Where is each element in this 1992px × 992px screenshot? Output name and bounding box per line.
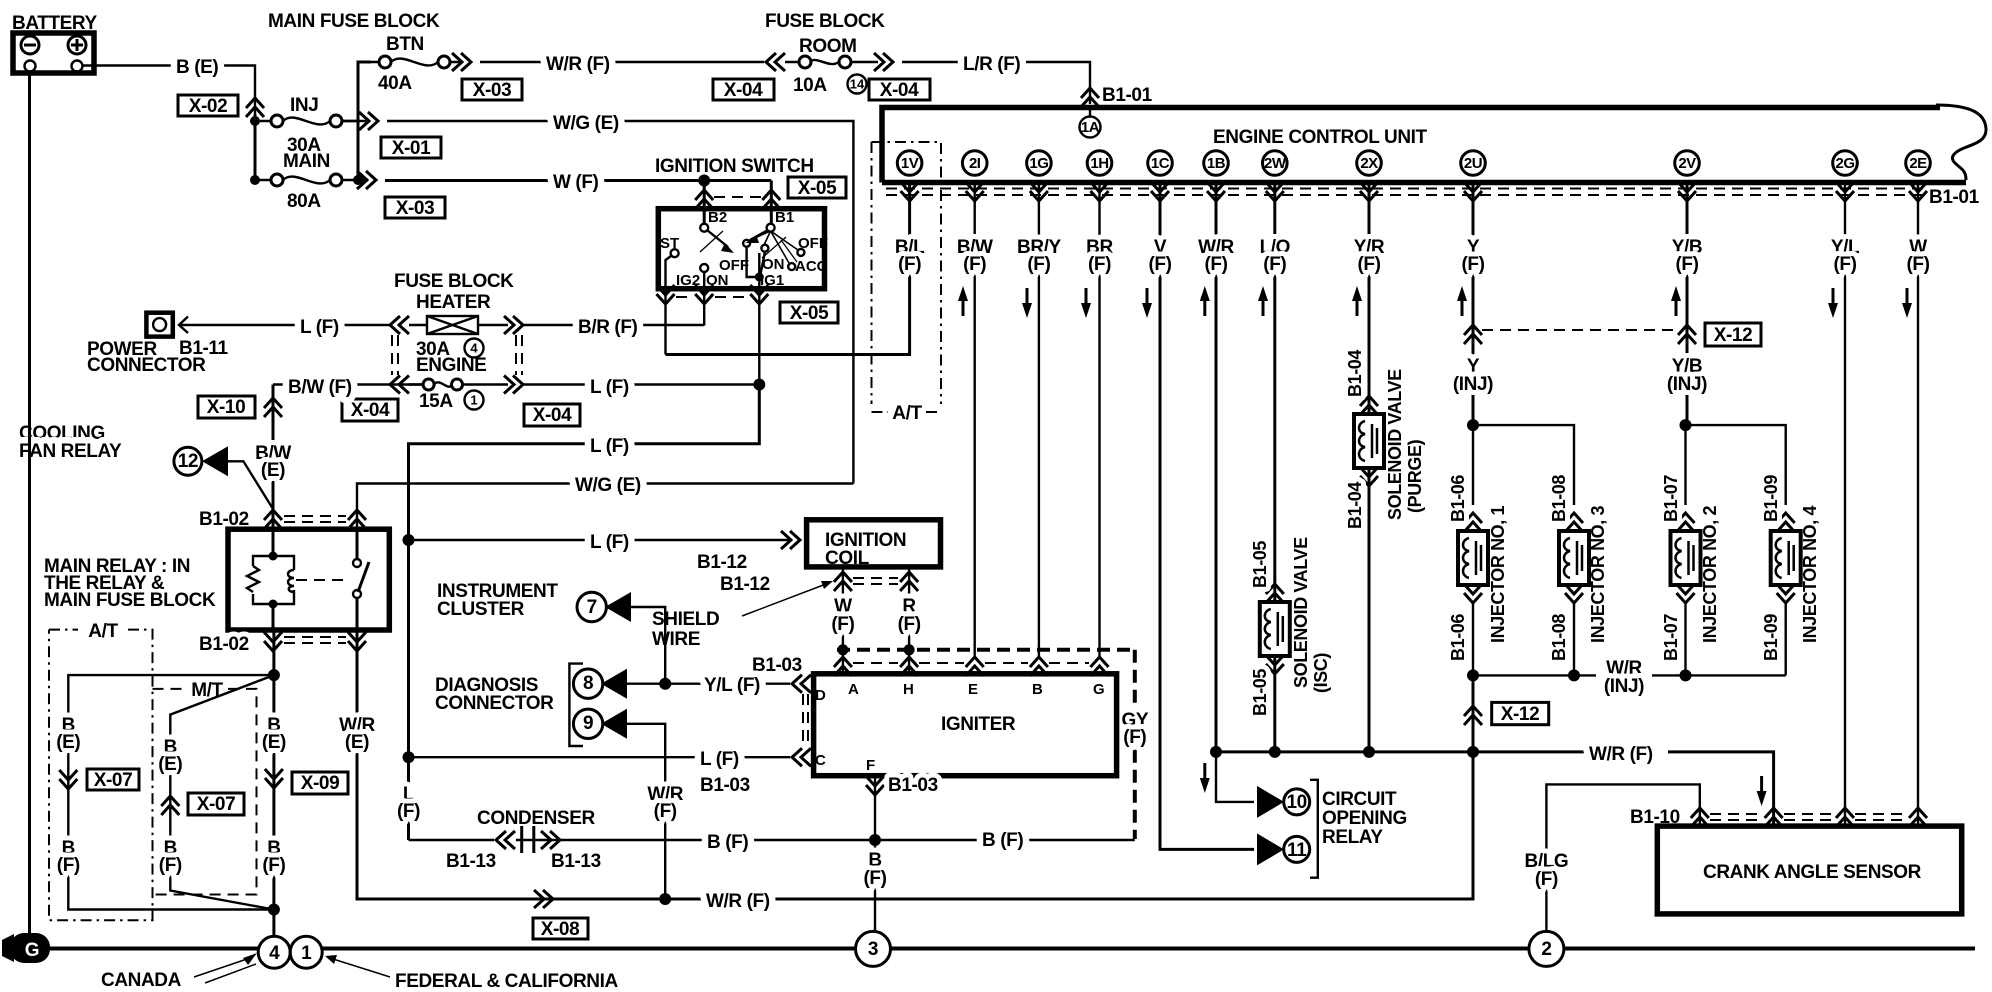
main relay coil: [247, 529, 350, 630]
svg-text:11: 11: [1287, 840, 1307, 861]
svg-text:(F): (F): [1535, 869, 1558, 890]
svg-text:X-08: X-08: [541, 919, 580, 940]
svg-text:B1-04: B1-04: [1345, 350, 1365, 397]
wire battery minus to ground: [28, 72, 31, 940]
svg-text:L (F): L (F): [700, 749, 739, 770]
pin 1V: [897, 151, 922, 201]
svg-text:X-01: X-01: [392, 138, 431, 159]
svg-text:B1-03: B1-03: [888, 775, 938, 796]
connector X-08 chevron: [534, 890, 553, 908]
power connector labels: [87, 338, 229, 376]
connector B1-01 chevron: [1081, 88, 1099, 107]
svg-text:X-07: X-07: [94, 770, 133, 791]
svg-text:1H: 1H: [1090, 155, 1108, 172]
main relay switch: [353, 529, 369, 630]
wire B1 drop: [770, 181, 773, 225]
pin 2G: [1833, 151, 1858, 201]
svg-text:10: 10: [1287, 792, 1307, 813]
wire injector 1-3 top link: [1473, 425, 1574, 505]
svg-text:B1-06: B1-06: [1448, 614, 1468, 661]
injector no 4: [1771, 513, 1801, 675]
connector X-09 box: [292, 772, 348, 794]
connector X-02 chevron: [246, 98, 264, 117]
svg-text:(F): (F): [1461, 254, 1484, 275]
svg-text:X-09: X-09: [301, 773, 340, 794]
svg-text:X-05: X-05: [798, 178, 837, 199]
svg-text:D: D: [815, 687, 826, 704]
shield wire dashed: [837, 644, 1135, 839]
svg-text:(F): (F): [1088, 254, 1111, 275]
svg-text:B1-11: B1-11: [179, 338, 229, 359]
ECU engine control unit outline: [882, 108, 1940, 183]
wire ROOM out: [851, 61, 878, 63]
connector B1-02 chevrons bottom: [264, 632, 366, 651]
wire B/W (F) down to relay coil: [272, 385, 275, 530]
svg-text:1V: 1V: [901, 155, 919, 172]
svg-text:(F): (F): [1357, 254, 1380, 275]
junction inj2 bottom: [1680, 669, 1692, 681]
svg-text:B1-03: B1-03: [700, 775, 750, 796]
fuse HEATER 30A: [409, 316, 508, 360]
svg-text:(F): (F): [1123, 727, 1146, 748]
connector X-07 chevron at: [59, 770, 77, 789]
node 2: [1529, 931, 1564, 966]
svg-text:(PURGE): (PURGE): [1405, 439, 1425, 513]
svg-text:2E: 2E: [1909, 155, 1927, 172]
pin 2E: [1906, 151, 1931, 201]
wires coil pins into igniter: [843, 650, 909, 674]
power connector pin arrow: [179, 317, 188, 334]
svg-text:4: 4: [269, 943, 280, 964]
wire 2W to solenoid ISC: [1273, 182, 1276, 752]
pin 2U: [1461, 151, 1486, 201]
cooling fan relay labels: [19, 423, 122, 462]
svg-text:G: G: [1093, 681, 1105, 698]
connector X-04 box right: [869, 79, 930, 101]
wire 1V B/L: [666, 182, 910, 355]
svg-text:A: A: [848, 681, 859, 698]
connector X-01: [381, 137, 441, 159]
wire W/R (F): [480, 61, 764, 63]
junction: [250, 116, 260, 126]
wire 1H to igniter G: [1098, 182, 1100, 656]
node B/W (E): [255, 443, 291, 481]
node GY (F): [1121, 710, 1148, 748]
ECU right brace: [1936, 105, 1986, 180]
wire A/T branch: [68, 675, 274, 909]
wire 2I to igniter E: [974, 182, 976, 656]
wire injector 2-4 top link: [1686, 425, 1786, 505]
wire L (F) to igniter C: [409, 756, 791, 758]
svg-text:RELAY: RELAY: [1322, 827, 1383, 848]
node R (F) coil: [898, 596, 921, 635]
svg-text:SHIELD: SHIELD: [652, 609, 719, 630]
svg-text:(F): (F): [863, 868, 886, 889]
junction PURGE: [1363, 746, 1375, 758]
svg-text:(F): (F): [898, 254, 921, 275]
connector X-04 chevrons left pair: [390, 316, 409, 394]
wire relay coil down to circle 4: [272, 630, 275, 936]
svg-text:SOLENOID VALVE: SOLENOID VALVE: [1291, 537, 1311, 688]
wire L net riser junctions: [403, 534, 415, 763]
wire 2X to solenoid PURGE: [1368, 182, 1371, 752]
instrument cluster label: [437, 581, 558, 620]
svg-text:W (F): W (F): [553, 172, 599, 193]
connector X-10 chevron: [264, 398, 282, 417]
diagnosis pin 9: [573, 709, 665, 899]
connector X-12 chevron 2U: [1464, 325, 1482, 344]
connector B1-13 chevron right: [541, 831, 560, 849]
junction inj1 bottom: [1467, 669, 1479, 681]
power connector symbol B1-11: [146, 313, 172, 337]
svg-text:X-04: X-04: [880, 80, 919, 101]
wire W (F) to ignition switch: [385, 179, 771, 182]
switch pins out chevrons: [657, 285, 769, 385]
connector X-05 box top: [788, 177, 846, 199]
node Y (INJ): [1453, 356, 1493, 395]
node W (F): [1902, 237, 1930, 318]
junction ISC: [1269, 746, 1281, 758]
svg-text:B1-08: B1-08: [1549, 614, 1569, 661]
svg-text:1: 1: [301, 943, 312, 964]
wire 2V to injectors: [1686, 182, 1689, 425]
connector X-12 box: [1705, 323, 1761, 346]
injector no 2: [1671, 425, 1701, 675]
svg-text:E: E: [968, 681, 978, 698]
svg-text:(F): (F): [397, 801, 420, 822]
node B (E) at: [56, 715, 80, 753]
wire L (F) to ignition coil: [409, 539, 791, 541]
svg-text:BTN: BTN: [386, 34, 424, 55]
A/T dash-dot box: [49, 621, 153, 920]
svg-text:1G: 1G: [1029, 155, 1048, 172]
svg-text:B1-12: B1-12: [697, 552, 747, 573]
svg-text:3: 3: [868, 939, 878, 960]
wire BTN riser: [358, 62, 371, 180]
pin 2I: [962, 151, 987, 201]
node B (F) mt: [159, 838, 182, 876]
cluster pin 7: [577, 592, 665, 684]
junction injector 2 top: [1680, 419, 1692, 431]
svg-text:FUSE BLOCK: FUSE BLOCK: [394, 271, 514, 292]
junction 9 wire: [659, 893, 671, 905]
switch B1 star contacts: [743, 230, 828, 289]
svg-text:L/R (F): L/R (F): [963, 54, 1020, 75]
svg-text:B1-13: B1-13: [446, 851, 496, 872]
svg-text:14: 14: [850, 77, 865, 92]
svg-text:C: C: [815, 752, 826, 769]
svg-text:B1-03: B1-03: [752, 655, 802, 676]
wire B/R (F) to IG2: [523, 324, 704, 326]
A/T dash-dot box at pin 1V: [872, 142, 942, 424]
svg-text:(F): (F): [1204, 254, 1227, 275]
pin B1: [767, 209, 795, 232]
svg-text:(F): (F): [1148, 254, 1171, 275]
svg-text:B1-09: B1-09: [1761, 475, 1781, 522]
svg-text:ENGINE: ENGINE: [416, 355, 486, 376]
svg-text:B1-08: B1-08: [1549, 475, 1569, 522]
node Y/R (F): [1352, 237, 1385, 316]
svg-text:B1-02: B1-02: [199, 634, 249, 655]
svg-text:ENGINE CONTROL UNIT: ENGINE CONTROL UNIT: [1213, 127, 1428, 148]
svg-text:1C: 1C: [1151, 155, 1170, 172]
connector B1-03 chevron C: [792, 748, 811, 766]
svg-text:W/G (E): W/G (E): [553, 113, 619, 134]
svg-text:(F): (F): [262, 855, 285, 876]
pin 1A: [1080, 107, 1101, 138]
wire 2G to crank sensor: [1844, 182, 1846, 826]
connector X-02: [178, 95, 238, 117]
svg-text:IGNITER: IGNITER: [941, 714, 1016, 735]
svg-text:2V: 2V: [1678, 155, 1696, 172]
pin B2: [700, 209, 727, 232]
connector X-04 box left: [713, 79, 774, 101]
ignition coil box: [807, 520, 941, 569]
svg-text:2X: 2X: [1360, 155, 1378, 172]
wire 1G to igniter B: [1038, 182, 1040, 656]
svg-text:W/R (F): W/R (F): [1589, 744, 1653, 765]
node V (F): [1142, 237, 1172, 318]
svg-text:WIRE: WIRE: [652, 629, 700, 650]
connector B1-03 chevron D: [792, 675, 811, 693]
ground G symbol: [2, 933, 50, 963]
connector X-07 box at: [87, 769, 139, 791]
svg-text:B1-01: B1-01: [1102, 85, 1153, 106]
node B (F) f: [863, 850, 886, 889]
svg-text:B1-13: B1-13: [551, 851, 601, 872]
contact ST: [660, 235, 679, 288]
node BR (F): [1081, 237, 1113, 318]
svg-text:W/G (E): W/G (E): [575, 475, 641, 496]
wire W/G (E) fuse INJ to riser: [387, 121, 853, 484]
connector X-01 chevron: [359, 112, 378, 130]
wire coil R pin: [908, 567, 910, 650]
junction IG1 L: [753, 379, 765, 391]
svg-text:(F): (F): [57, 855, 80, 876]
svg-text:2I: 2I: [969, 155, 981, 172]
arrow into crank sensor: [1757, 776, 1767, 806]
node B/W (F): [957, 237, 993, 316]
wire IG1 down to L row2: [409, 385, 760, 841]
node L (F) condenser drop: [397, 784, 420, 822]
node BR/Y (F): [1017, 237, 1062, 318]
wire MAIN out: [358, 179, 368, 182]
svg-text:INJECTOR NO, 3: INJECTOR NO, 3: [1588, 506, 1608, 643]
svg-text:(E): (E): [262, 732, 286, 753]
circuit opening relay label: [1322, 789, 1407, 848]
wire B2 drop: [703, 181, 706, 225]
wire W/G (E) row2 to relay: [357, 484, 853, 530]
node B/L (F): [895, 237, 925, 275]
junction A/T M/T top: [268, 669, 280, 681]
svg-text:2: 2: [1541, 939, 1551, 960]
pin 1H: [1087, 151, 1112, 201]
connector X-03 lower: [385, 197, 445, 219]
svg-text:8: 8: [583, 673, 593, 694]
wire to relay pin 10: [1200, 752, 1254, 802]
svg-text:(F): (F): [654, 801, 677, 822]
connector X-10 box: [198, 396, 255, 418]
svg-text:HEATER: HEATER: [416, 292, 491, 313]
injector no 1: [1458, 425, 1488, 675]
svg-text:Y/L (F): Y/L (F): [704, 675, 760, 696]
svg-text:CONDENSER: CONDENSER: [477, 808, 595, 829]
svg-text:2W: 2W: [1264, 155, 1287, 172]
main relay label: [44, 556, 216, 611]
svg-text:MAIN FUSE BLOCK: MAIN FUSE BLOCK: [44, 590, 216, 611]
diagnosis connector label: [435, 675, 554, 714]
solenoid valve ISC: [1260, 584, 1290, 674]
svg-text:L (F): L (F): [590, 532, 629, 553]
svg-text:9: 9: [583, 713, 593, 734]
svg-text:ON: ON: [762, 256, 785, 273]
connector X-08 box: [533, 918, 588, 940]
wire L/R (F) to ECU 1A: [902, 62, 1090, 104]
wire injector common down: [1472, 675, 1475, 752]
svg-text:G: G: [25, 940, 39, 961]
igniter box: [814, 674, 1117, 776]
connector dashed D-C: [803, 694, 808, 748]
svg-text:MAIN FUSE BLOCK: MAIN FUSE BLOCK: [268, 11, 440, 32]
ECU connector dashed bus B1-01: [886, 188, 1926, 190]
svg-text:CIRCUIT: CIRCUIT: [1322, 789, 1397, 810]
igniter pin labels: [815, 681, 1105, 774]
svg-text:CLUSTER: CLUSTER: [437, 599, 525, 620]
junction A/T M/T bottom: [268, 904, 280, 916]
svg-text:FEDERAL & CALIFORNIA: FEDERAL & CALIFORNIA: [395, 971, 618, 992]
svg-text:(INJ): (INJ): [1667, 374, 1707, 395]
node W/R (INJ): [1604, 658, 1644, 697]
svg-text:(ISC): (ISC): [1311, 653, 1331, 693]
junction igniter F to B row: [869, 834, 881, 846]
diagnosis bracket: [569, 664, 583, 746]
svg-text:X-12: X-12: [1714, 325, 1753, 346]
node W/R (E): [339, 715, 375, 753]
fuse BTN 40A: [371, 34, 462, 94]
node L/O (F): [1258, 237, 1290, 316]
label FEDERAL: [325, 955, 618, 992]
wire L (F) heater row: [179, 324, 390, 326]
pin 2V: [1675, 151, 1700, 201]
wire W/R (E) relay to bottom row: [357, 630, 1473, 899]
svg-text:H: H: [903, 681, 914, 698]
svg-text:80A: 80A: [287, 191, 321, 212]
connector B1-13 chevron left: [496, 831, 515, 849]
node B (E) mt: [158, 737, 182, 775]
pin 1C: [1148, 151, 1173, 201]
svg-text:L (F): L (F): [590, 377, 629, 398]
connector X-07 box mt: [188, 793, 244, 815]
node W (F) coil: [831, 596, 854, 635]
svg-text:(F): (F): [1906, 254, 1929, 275]
svg-text:ON: ON: [706, 272, 729, 289]
label SOLENOID VALVE PURGE: [1385, 369, 1425, 520]
pin 1G: [1027, 151, 1052, 201]
svg-text:X-02: X-02: [189, 96, 228, 117]
junction inj3 bottom: [1568, 669, 1580, 681]
wire B/W (F) engine fuse row: [273, 383, 423, 385]
wire 2U to injectors: [1472, 182, 1475, 425]
diagnosis pin 8: [573, 669, 790, 699]
wire M/T branch: [170, 675, 274, 909]
svg-text:FAN RELAY: FAN RELAY: [19, 441, 122, 462]
node Y (F): [1457, 237, 1485, 316]
fuse ROOM 10A: [785, 56, 867, 96]
connector X-12 dashed link: [1482, 329, 1678, 331]
node 3: [856, 931, 891, 966]
node B/LG (F): [1525, 851, 1569, 890]
junction injector 1 top: [1467, 419, 1479, 431]
svg-text:B: B: [1032, 681, 1043, 698]
svg-text:10A: 10A: [793, 75, 827, 96]
node Y/L (F): [1828, 237, 1860, 318]
svg-text:B1-07: B1-07: [1661, 475, 1681, 522]
svg-text:B1-05: B1-05: [1250, 541, 1270, 588]
wire IG1 net: [747, 247, 765, 288]
node Y/B (INJ): [1667, 356, 1707, 395]
fuse ENGINE 15A: [409, 355, 508, 412]
junction INJ common: [1467, 746, 1479, 758]
main relay box: [228, 529, 389, 630]
connector B1-10 chevrons: [1691, 808, 1927, 827]
svg-text:B2: B2: [708, 209, 727, 226]
svg-text:(F): (F): [159, 855, 182, 876]
svg-text:15A: 15A: [419, 391, 453, 412]
connector X-12 box low: [1492, 702, 1549, 725]
circuit opening relay pin 10: [1257, 786, 1310, 818]
connector X-12 chevron 2V: [1678, 325, 1696, 344]
svg-text:B (F): B (F): [707, 832, 748, 853]
svg-text:X-04: X-04: [533, 405, 572, 426]
connector B1-12 chevron coil: [781, 531, 800, 549]
circuit opening relay pin 11: [1257, 833, 1310, 865]
svg-text:2G: 2G: [1835, 155, 1854, 172]
svg-text:B1-01: B1-01: [1929, 187, 1980, 208]
svg-text:B (F): B (F): [982, 830, 1023, 851]
wire L (F) to IG1: [523, 383, 759, 385]
title FUSE BLOCK heater: [394, 271, 514, 313]
svg-text:CANADA: CANADA: [101, 970, 182, 991]
svg-text:X-10: X-10: [207, 397, 246, 418]
svg-text:L (F): L (F): [590, 436, 629, 457]
svg-text:IGNITION SWITCH: IGNITION SWITCH: [655, 156, 814, 177]
connector X-04 box right2: [524, 404, 580, 426]
connector B1-03 chevron row: [834, 657, 1109, 676]
connector X-04 chevron right: [874, 53, 893, 71]
connector X-05 chevron B2: [695, 190, 713, 209]
connector B1-12 chevrons: [834, 572, 918, 591]
svg-text:B1-09: B1-09: [1761, 614, 1781, 661]
condenser capacitor: [522, 826, 534, 853]
svg-text:B (E): B (E): [176, 57, 218, 78]
battery: [13, 33, 94, 73]
ground bus: [50, 947, 1975, 951]
svg-text:F: F: [866, 757, 875, 774]
svg-text:INJECTOR NO, 4: INJECTOR NO, 4: [1800, 506, 1820, 643]
injector no 3: [1559, 513, 1589, 675]
svg-text:B1: B1: [775, 209, 794, 226]
connector X-05 dashed link: [714, 196, 762, 198]
node W/R (F): [1198, 237, 1234, 316]
svg-text:B1-12: B1-12: [720, 574, 770, 595]
svg-text:X-03: X-03: [396, 198, 435, 219]
svg-text:W/R (F): W/R (F): [706, 891, 770, 912]
svg-text:1A: 1A: [1081, 119, 1100, 136]
svg-text:ACC: ACC: [795, 258, 828, 275]
svg-text:(INJ): (INJ): [1453, 374, 1493, 395]
svg-text:B1-04: B1-04: [1345, 482, 1365, 529]
crank angle sensor: [1657, 826, 1961, 914]
